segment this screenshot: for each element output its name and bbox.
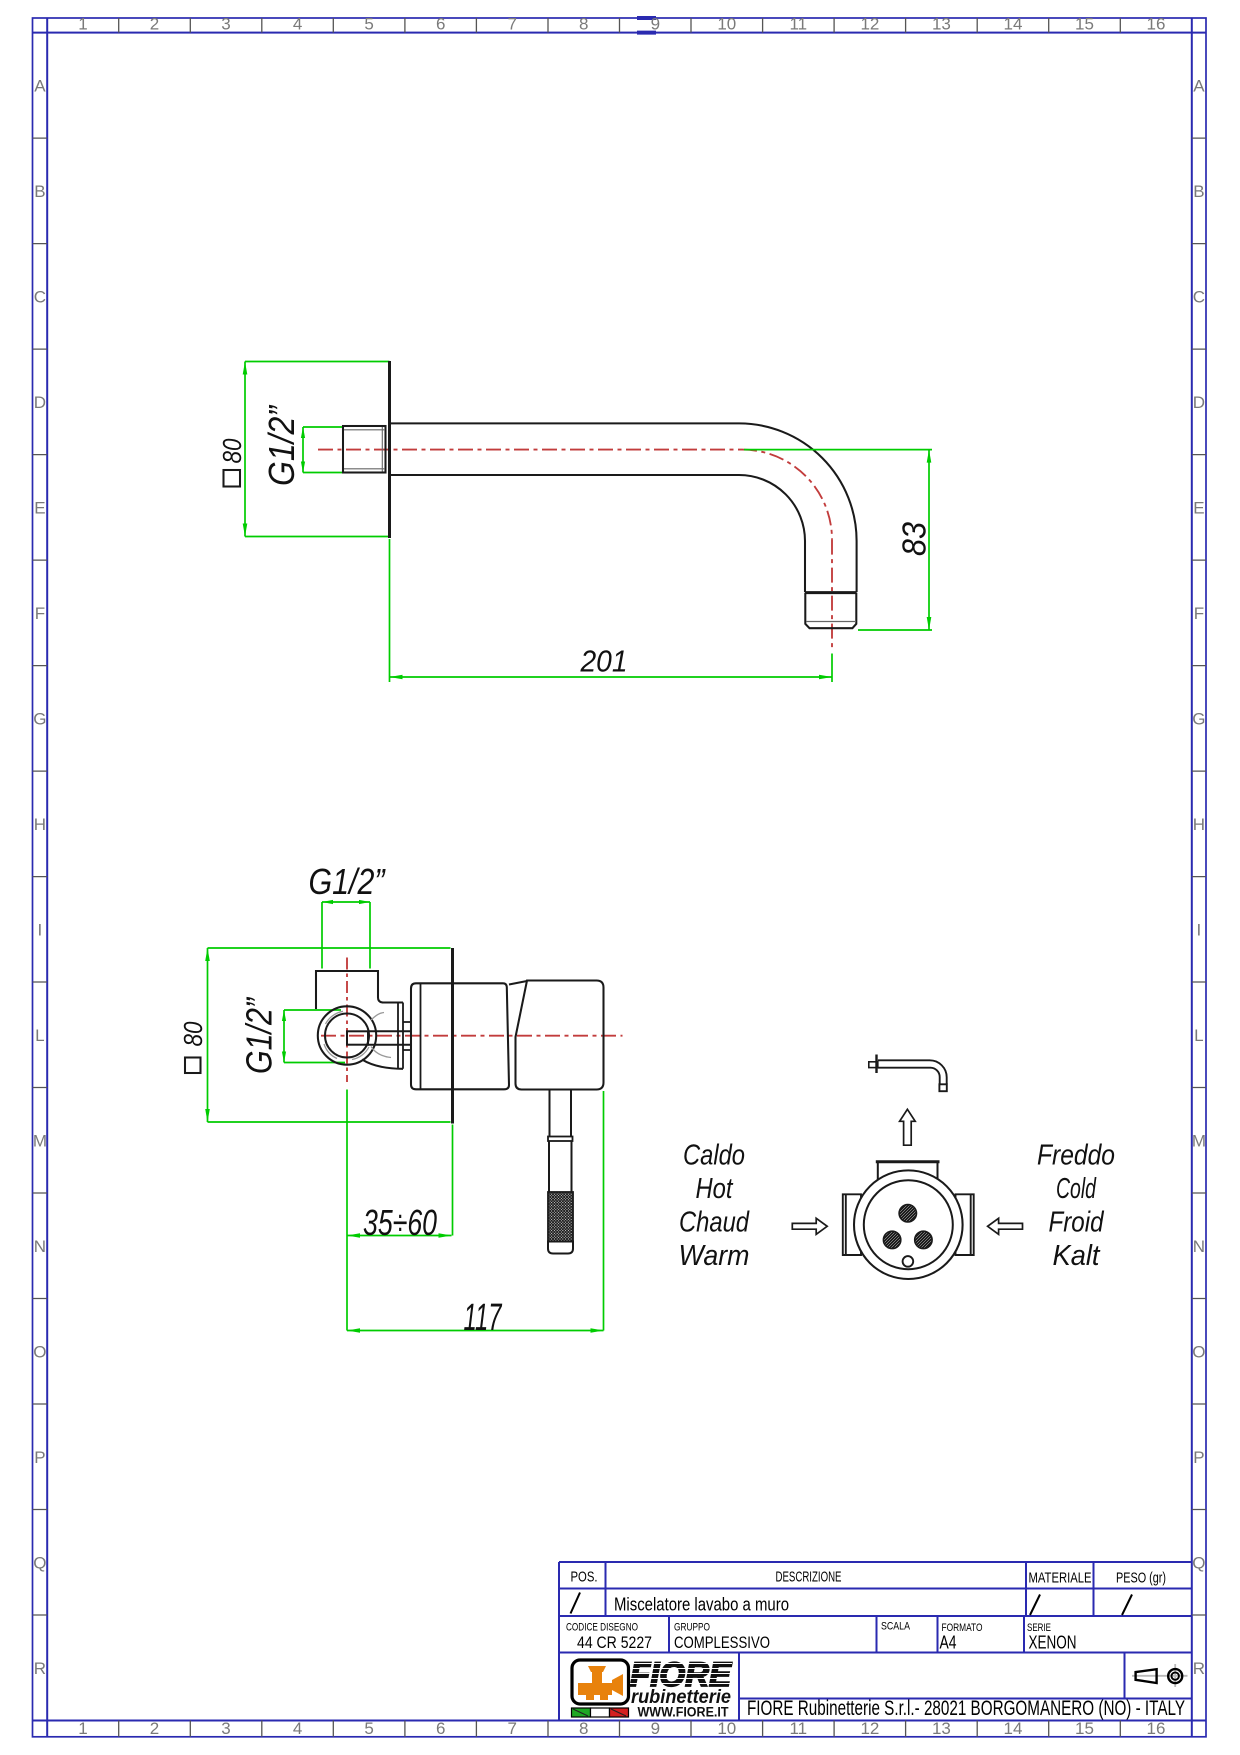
- svg-text:L: L: [1194, 1026, 1203, 1045]
- red centerline horizontal (valve axis): [321, 1035, 623, 1037]
- dimension square-80 (mixer) lines: [208, 948, 451, 1122]
- inlet slot rectangle: [347, 1031, 368, 1044]
- svg-text:1: 1: [78, 1719, 87, 1738]
- svg-text:CODICE DISEGNO: CODICE DISEGNO: [566, 1622, 638, 1634]
- valve in-wall body outline: [316, 971, 403, 1009]
- body bottom-right arm outline: [362, 1060, 403, 1069]
- handle knurled grip: [548, 1192, 573, 1242]
- neck vertical line: [398, 1003, 403, 1069]
- outlet up arrow (hollow): [900, 1109, 916, 1145]
- svg-text:117: 117: [464, 1297, 503, 1339]
- svg-text:13: 13: [932, 15, 951, 34]
- svg-text:SCALA: SCALA: [881, 1621, 911, 1633]
- dimension 201 arrows: [390, 675, 403, 680]
- svg-text:14: 14: [1004, 1719, 1023, 1738]
- svg-text:P: P: [1193, 1448, 1204, 1467]
- logo rounded frame: [572, 1660, 629, 1704]
- svg-text:201: 201: [580, 644, 628, 679]
- dimension 35-60 arrows: [347, 1233, 360, 1238]
- svg-text:Kalt: Kalt: [1053, 1240, 1102, 1272]
- svg-text:5: 5: [364, 15, 373, 34]
- svg-text:MATERIALE: MATERIALE: [1029, 1570, 1092, 1587]
- svg-text:Froid: Froid: [1049, 1207, 1105, 1239]
- svg-text:14: 14: [1004, 15, 1023, 34]
- spout tube outline: [391, 423, 857, 592]
- svg-text:10: 10: [717, 15, 736, 34]
- svg-text:6: 6: [436, 15, 445, 34]
- projection symbol circles: [1168, 1669, 1182, 1683]
- svg-text:H: H: [34, 815, 46, 834]
- wall plate (mixer flange, edge view): [451, 948, 454, 1124]
- dimension square-80 extension lines (top view): [245, 362, 390, 537]
- svg-text:D: D: [34, 393, 46, 412]
- title block grid: [559, 1562, 1192, 1721]
- svg-text:9: 9: [651, 1719, 660, 1738]
- svg-text:A: A: [1193, 76, 1205, 95]
- dimension square-80 label square symbol: [224, 470, 241, 487]
- dimension 83 arrows: [927, 450, 932, 463]
- dimension 117 arrows: [347, 1328, 360, 1333]
- svg-text:83: 83: [896, 521, 933, 556]
- svg-text:M: M: [1192, 1131, 1206, 1150]
- dimension G1/2 top arrows: [322, 900, 333, 904]
- svg-text:POS.: POS.: [571, 1569, 598, 1586]
- svg-text:WWW.FIORE.IT: WWW.FIORE.IT: [638, 1705, 730, 1720]
- inlet thread arcs (gray): [324, 1011, 369, 1059]
- svg-text:H: H: [1193, 815, 1205, 834]
- svg-text:5: 5: [364, 1719, 373, 1738]
- svg-text:11: 11: [789, 1719, 807, 1738]
- logo italian flag: [572, 1708, 629, 1717]
- svg-text:Cold: Cold: [1056, 1173, 1097, 1205]
- dimension G1/2 arrows: [301, 427, 305, 438]
- small screw hole bottom: [903, 1256, 914, 1267]
- svg-text:P: P: [34, 1448, 45, 1467]
- materiale value slash: [1030, 1595, 1040, 1616]
- green extension vertical from port center: [346, 1090, 348, 1331]
- dimension G1/2 top line (mixer): [322, 902, 370, 969]
- valve front outer circle: [854, 1170, 963, 1279]
- dimension G1/2 (top view) extension+line: [303, 427, 343, 473]
- neck clamp lines: [403, 1022, 411, 1050]
- svg-text:12: 12: [860, 15, 879, 34]
- svg-text:E: E: [1193, 498, 1204, 517]
- step line cartridge to body: [509, 981, 527, 985]
- svg-text:16: 16: [1147, 1719, 1166, 1738]
- svg-text:7: 7: [507, 1719, 516, 1738]
- svg-text:16: 16: [1147, 15, 1166, 34]
- svg-text:FIORE Rubinetterie S.r.l.- 280: FIORE Rubinetterie S.r.l.- 28021 BORGOMA…: [747, 1697, 1185, 1720]
- svg-text:G1/2”: G1/2”: [261, 404, 302, 486]
- svg-text:10: 10: [717, 1719, 736, 1738]
- svg-text:80: 80: [217, 438, 247, 463]
- logo orange faucet icon: [578, 1666, 623, 1700]
- port hole top (hatched): [899, 1205, 916, 1222]
- dimension square-80 (mixer) arrows: [205, 948, 210, 961]
- dimension 201 extension lines: [390, 539, 833, 682]
- small spout icon wall tick: [875, 1055, 877, 1074]
- svg-text:F: F: [1194, 604, 1204, 623]
- svg-text:6: 6: [436, 1719, 445, 1738]
- valve inlet port outer circle: [318, 1006, 376, 1064]
- svg-text:L: L: [35, 1026, 44, 1045]
- svg-text:Miscelatore lavabo a muro: Miscelatore lavabo a muro: [614, 1594, 789, 1615]
- port hole right (hatched): [915, 1231, 932, 1248]
- svg-text:G1/2”: G1/2”: [309, 861, 387, 902]
- supply pipe lines to cartridge: [368, 1031, 411, 1044]
- svg-text:O: O: [1192, 1342, 1205, 1361]
- svg-text:I: I: [1197, 920, 1202, 939]
- svg-text:Q: Q: [1192, 1553, 1205, 1572]
- svg-text:35÷60: 35÷60: [363, 1202, 437, 1243]
- handle tip: [548, 1242, 573, 1254]
- dimension 83 extension lines: [744, 450, 932, 630]
- peso value slash: [1122, 1595, 1132, 1616]
- valve front inner circle: [864, 1180, 953, 1269]
- projection symbol frustum: [1136, 1669, 1157, 1683]
- svg-text:E: E: [34, 498, 45, 517]
- svg-text:1: 1: [78, 15, 87, 34]
- square-80 label square symbol (mixer): [185, 1058, 201, 1074]
- svg-text:R: R: [1193, 1659, 1205, 1678]
- red centerline horizontal (spout axis): [318, 449, 742, 451]
- svg-text:G: G: [33, 709, 46, 728]
- svg-text:B: B: [1193, 182, 1204, 201]
- svg-text:XENON: XENON: [1029, 1633, 1077, 1653]
- spout tip separation line: [805, 591, 857, 594]
- svg-text:15: 15: [1075, 15, 1094, 34]
- svg-text:N: N: [1193, 1237, 1205, 1256]
- svg-text:4: 4: [293, 15, 302, 34]
- small spout icon tip: [939, 1084, 946, 1091]
- left port pad: [843, 1194, 861, 1255]
- svg-text:M: M: [33, 1131, 47, 1150]
- svg-text:N: N: [34, 1237, 46, 1256]
- flag diagonal marks: [573, 1709, 626, 1716]
- wall plate (spout flange, edge view): [388, 361, 391, 538]
- svg-text:B: B: [34, 182, 45, 201]
- svg-text:2: 2: [150, 1719, 159, 1738]
- svg-text:Warm: Warm: [679, 1240, 750, 1272]
- svg-text:A4: A4: [940, 1633, 957, 1653]
- svg-text:R: R: [34, 1659, 46, 1678]
- dimension square-80 arrows: [243, 362, 248, 375]
- svg-text:D: D: [1193, 393, 1205, 412]
- valve inlet port inner circle: [325, 1014, 369, 1058]
- svg-text:4: 4: [293, 1719, 302, 1738]
- mixer external body: [516, 981, 604, 1090]
- casting fillet curves (gray): [371, 1013, 391, 1058]
- svg-text:PESO (gr): PESO (gr): [1116, 1570, 1166, 1587]
- svg-text:3: 3: [221, 15, 230, 34]
- small spout icon nipple: [869, 1062, 878, 1068]
- svg-text:13: 13: [932, 1719, 951, 1738]
- cartridge cylinder: [411, 983, 509, 1089]
- green extension vertical from wall plate: [452, 1125, 454, 1236]
- top port pad: [878, 1161, 938, 1195]
- svg-text:DESCRIZIONE: DESCRIZIONE: [776, 1569, 842, 1586]
- svg-text:Q: Q: [33, 1553, 46, 1572]
- logo FIORE scanlines: [630, 1664, 732, 1684]
- pos value slash: [571, 1593, 581, 1614]
- svg-text:12: 12: [860, 1719, 879, 1738]
- svg-text:8: 8: [579, 15, 588, 34]
- nipple thread lines: [344, 427, 385, 472]
- handle collar: [548, 1137, 573, 1142]
- port hole left (hatched): [883, 1231, 900, 1248]
- svg-text:44 CR 5227: 44 CR 5227: [577, 1633, 652, 1652]
- svg-text:A: A: [34, 76, 46, 95]
- svg-text:15: 15: [1075, 1719, 1094, 1738]
- cold inlet arrow (hollow, pointing left): [988, 1218, 1023, 1234]
- threaded nipple G1/2 (spout inlet): [343, 426, 386, 473]
- dimension G1/2 left arrows: [282, 1010, 286, 1021]
- svg-text:COMPLESSIVO: COMPLESSIVO: [674, 1633, 770, 1652]
- red centerline vertical (port axis): [346, 958, 348, 1083]
- svg-text:8: 8: [579, 1719, 588, 1738]
- small spout icon tube: [878, 1060, 947, 1084]
- handle stem lower: [549, 1141, 572, 1192]
- svg-text:80: 80: [178, 1021, 208, 1046]
- green extension vertical from body right: [603, 1091, 605, 1331]
- projection symbol centerline: [1132, 1664, 1188, 1687]
- svg-text:Freddo: Freddo: [1037, 1140, 1115, 1172]
- spout tip thread line: [806, 621, 856, 623]
- red centerline bend arc: [742, 450, 832, 540]
- dimension 117 line: [347, 1330, 604, 1332]
- spout tip (aerator): [805, 593, 856, 629]
- svg-text:3: 3: [221, 1719, 230, 1738]
- svg-text:2: 2: [150, 15, 159, 34]
- svg-text:11: 11: [789, 15, 807, 34]
- svg-text:Hot: Hot: [696, 1173, 735, 1205]
- svg-text:9: 9: [651, 15, 660, 34]
- svg-text:G: G: [1192, 709, 1205, 728]
- handle stem upper: [550, 1090, 572, 1137]
- svg-text:G1/2”: G1/2”: [239, 996, 280, 1074]
- red centerline vertical (spout tip axis): [831, 540, 833, 649]
- svg-text:C: C: [34, 287, 46, 306]
- svg-text:Caldo: Caldo: [683, 1140, 745, 1172]
- right port pad: [956, 1194, 974, 1255]
- svg-text:O: O: [33, 1342, 46, 1361]
- svg-text:I: I: [38, 920, 43, 939]
- hot inlet arrow (hollow, pointing right): [792, 1218, 827, 1234]
- svg-text:GRUPPO: GRUPPO: [674, 1622, 710, 1634]
- svg-text:F: F: [35, 604, 45, 623]
- dimension G1/2 left (mixer port) lines: [284, 1010, 345, 1063]
- dimension 35-60 line: [347, 1235, 452, 1237]
- svg-text:C: C: [1193, 287, 1205, 306]
- frame fold mark top: [637, 18, 656, 33]
- cartridge ring line: [420, 983, 422, 1089]
- svg-text:Chaud: Chaud: [679, 1207, 750, 1239]
- svg-text:7: 7: [507, 15, 516, 34]
